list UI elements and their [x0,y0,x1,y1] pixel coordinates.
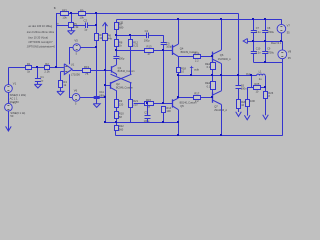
node junction 265.2,19.3 [264,18,266,20]
resistor R14 [162,106,172,113]
resistor R6 [103,33,113,40]
wire V7 bottom [281,33,283,41]
wire Q1 emitter [116,74,118,76]
wire stub x71 [71,14,73,23]
svg-text:outb: outb [194,68,200,72]
svg-text:V6: V6 [74,89,78,93]
wire V5 right [80,47,96,49]
wire C13 up [116,50,118,56]
svg-text:V8: V8 [288,49,292,53]
resistor R21 [129,99,139,107]
wire Q1 collector [116,58,118,65]
node junction 96.7,25.3 [95,24,97,26]
svg-text:0.2u: 0.2u [256,52,261,55]
svg-text:R2: R2 [45,62,49,66]
capacitor C2 [84,19,88,32]
resistor R13 [145,45,154,56]
capacitor C7 [251,19,260,41]
wire top rail H2 [117,19,281,21]
node junction 56.3,67.5 [55,66,57,68]
wire vertical x105 [105,40,107,122]
wire H4 [116,35,164,37]
svg-text:in: in [57,22,60,25]
resistor R9 [79,8,86,19]
svg-text:R10: R10 [119,112,124,116]
node junction 116.2,35.4 [115,34,117,36]
wire V6 right [80,97,105,99]
wire rail to V7 [281,19,283,24]
svg-text:R26: R26 [268,91,273,95]
node junction 178.2,19.3 [177,18,179,20]
wire x163.7 bot [163,113,165,122]
capacitor C4 [144,29,150,42]
node junction 221.4,76 [220,74,222,76]
wire stack mid [116,108,118,112]
wire x178 mid [178,76,180,99]
svg-text:.OPTIONS plotwinsize=0: .OPTIONS plotwinsize=0 [26,45,55,49]
svg-text:100p: 100p [119,56,125,60]
wire vertical x96.7 [96,14,98,97]
resistor R16 [194,51,201,62]
net flag arrow up x105 [103,23,108,34]
wire output rail H10 [178,75,251,77]
svg-text:RE1: RE1 [205,62,211,66]
transistor Q7 [213,91,228,112]
ground arrow left [243,39,247,44]
svg-text:BD140_Custom: BD140_Custom [180,101,197,104]
resistor R12 [129,35,139,47]
svg-text:4700u: 4700u [267,31,275,34]
wire C1 drop [37,68,39,79]
svg-text:.four 10 20 V(out): .four 10 20 V(out) [28,36,48,40]
wire opamp -in drop [60,72,64,81]
transistor Q4 [172,44,197,56]
node junction 178.2,135.8 [177,134,179,136]
svg-text:35: 35 [288,56,291,60]
resistor R5 [69,22,80,29]
transistor Q6 [213,50,232,64]
wire neg rail H [254,62,282,64]
svg-text:R14: R14 [166,106,171,110]
node junction 178.2,97 [177,96,179,98]
svg-text:L1: L1 [259,69,262,73]
svg-text:R4: R4 [63,80,67,84]
wire cross diag 2 [111,74,132,83]
wire C3 drop [147,103,149,115]
wire x163.7 mid [163,45,165,103]
wire x163.7 top [163,35,165,42]
net flag outb [190,66,200,76]
resistor R20 [237,88,247,108]
svg-text:Q7: Q7 [214,104,218,108]
wire feedback top H1 [56,13,239,15]
capacitor C5 [161,41,173,48]
label C9 value [267,48,275,55]
ground below R4 [57,88,64,96]
source V2 [5,101,17,111]
wire bottom rail [116,135,282,137]
wire after L1 down [265,76,267,88]
resistor R25 [254,82,261,93]
svg-text:+35: +35 [119,21,124,24]
wire Q6 collector [221,19,223,50]
label C10 value [256,48,261,55]
node junction 212.8,97 [211,96,213,98]
wire input source riser [8,68,10,85]
svg-text:2.2: 2.2 [195,59,199,63]
svg-text:100p: 100p [144,38,150,42]
svg-text:Q4: Q4 [180,46,184,50]
inductor L1 [251,69,265,81]
capacitor C10 [251,41,257,63]
node junction 212.8,76 [211,74,213,76]
label rail +35 [119,21,124,24]
resistor RE2 [205,76,215,97]
ground below C11 [93,99,100,108]
wire stack bot [116,118,118,122]
svg-text:C11: C11 [99,90,104,94]
svg-text:R1: R1 [27,62,31,66]
capacitor C8 [262,19,271,41]
svg-text:1p: 1p [84,28,87,32]
wire x130.6 bot [130,108,132,122]
wire opamp V+ to V5 [69,48,73,65]
node junction 147.5,103.3 [146,102,148,104]
svg-text:R17: R17 [194,92,199,96]
svg-text:V1: V1 [13,81,17,85]
svg-text:C10: C10 [256,48,261,51]
svg-text:35: 35 [287,30,290,34]
wire Q5 down [178,110,180,136]
label spice directives [26,24,55,48]
source V7 [277,23,290,34]
resistor R9b [115,99,124,107]
svg-text:SINE(0 1 1k): SINE(0 1 1k) [10,111,25,115]
ground below R5 [68,28,75,35]
node junction 116.2,122 [115,121,117,123]
wire x130.6 lower [130,83,132,99]
svg-text:4700u: 4700u [267,52,275,55]
node junction 163.7,50 [162,49,164,51]
node junction 105,97.4 [104,96,106,98]
resistor RF1 [83,65,91,76]
wire Q6 emitter [221,64,223,76]
svg-text:2SA1943_A: 2SA1943_A [214,109,227,112]
label fb node [54,6,57,10]
svg-text:R6: R6 [108,33,112,37]
svg-text:SINE(0 1 20k): SINE(0 1 20k) [10,93,26,97]
svg-text:Rser=0.1: Rser=0.1 [271,42,282,45]
svg-text:C7: C7 [256,27,260,30]
svg-text:R18: R18 [181,66,186,70]
ground below C1 [34,81,41,88]
label Out [246,72,251,76]
svg-text:R13: R13 [147,45,152,49]
source V6 [72,89,80,106]
svg-text:V2: V2 [13,101,17,105]
svg-text:R22: R22 [119,124,124,128]
wire C3 bot [147,118,149,122]
svg-text:10R: 10R [250,99,255,103]
label node in [57,22,60,25]
source V1 [4,81,16,92]
resistor R10 [115,112,125,119]
wire Q4 emitter chain [178,56,180,67]
svg-text:R12: R12 [133,40,138,44]
wire Q7 collector [221,76,223,91]
wire opamp V- down [69,74,72,97]
svg-text:R8: R8 [119,40,123,44]
svg-text:Q5: Q5 [180,104,184,108]
svg-text:5: 5 [75,102,77,105]
wire lower base line [134,103,172,105]
node junction 71,13.5 [70,12,72,14]
svg-text:Q6: Q6 [220,53,224,57]
resistor R2 [44,62,50,73]
wire H7 upper out base [178,56,213,58]
svg-text:fb: fb [54,6,57,10]
source V8 [278,41,292,60]
resistor R26 load [264,88,274,99]
wire lower out base [178,97,213,99]
resistor RF2 [61,8,69,19]
ground below R20 [236,109,242,117]
ground below R24b [244,106,250,119]
svg-text:75: 75 [85,72,89,76]
svg-text:Out: Out [246,72,251,76]
svg-text:RE2: RE2 [205,81,211,85]
wire cross diag 1 [111,74,132,83]
svg-text:R21: R21 [133,99,138,103]
svg-text:5: 5 [76,53,78,56]
wire Q7 emitter [221,105,223,136]
svg-text:V5: V5 [74,39,78,43]
svg-text:C5: C5 [166,41,170,45]
wire Q2 down [115,90,116,99]
node junction 191.6,76 [190,74,192,76]
capacitor C6 [236,76,248,91]
ground net wire y41 [247,41,282,43]
label V1 sine [10,93,26,104]
svg-text:.tran 0 20ms 20ms 10ns: .tran 0 20ms 20ms 10ns [26,30,55,34]
capacitor C9 [262,41,268,63]
wire neg rail drop x282.3 [282,59,284,136]
resistor R8 [115,35,123,50]
resistor R4 [59,80,68,88]
svg-text:C9: C9 [267,48,271,51]
wire R18 to rail [178,73,180,76]
wire Q2 base [105,85,110,87]
resistor R15 [145,98,154,109]
node junction 265.2,63.3 [264,61,266,63]
svg-text:LT1056: LT1056 [71,72,80,76]
wire input H8 [8,67,64,69]
wire x130.6 upper [130,47,132,75]
svg-text:C8: C8 [267,27,271,30]
resistor R17 [194,92,201,103]
node junction 265.5,87.5 [264,86,266,88]
svg-text:Q2: Q2 [116,82,120,86]
svg-text:.OPTIONS numdgt=7: .OPTIONS numdgt=7 [28,40,53,44]
node junction 253.8,19.3 [252,18,254,20]
resistor R22 [115,122,125,131]
wire damp net y87.5 [247,76,265,88]
label Elect [271,42,282,45]
ground below load [263,98,269,119]
node junction 222,19.3 [220,18,222,20]
node junction 253.8,41 [252,40,254,42]
resistor R24b [246,88,255,107]
wire R22 to rail [115,130,117,136]
svg-text:2SC5200_A: 2SC5200_A [218,58,231,61]
node junction 116.4,50 [115,49,117,51]
svg-text:R15: R15 [146,98,151,102]
node junction 130.6,35.4 [129,34,131,36]
ground below V2 [6,111,12,131]
capacitor C1 [35,75,44,82]
source V5 [73,39,80,56]
resistor R18 [177,66,187,73]
node junction 178.2,122 [177,121,179,123]
node junction 105,69.8 [104,69,106,71]
svg-text:R25: R25 [255,82,260,86]
transistor Q1 [111,65,134,74]
svg-text:RF1: RF1 [84,65,90,69]
wire H6 [116,50,172,52]
node junction 163.7,103.3 [162,102,164,104]
resistor R3 [95,33,105,41]
svg-text:RF2: RF2 [62,8,68,12]
node junction 105,85.4 [104,84,106,86]
node junction 281.4,41 [280,40,282,42]
label C7 value [256,31,261,34]
svg-text:V7: V7 [287,23,291,27]
node junction 221.4,135.8 [220,134,222,136]
label V2 sine [10,111,25,118]
node junction 37.9,67.5 [36,66,38,68]
node junction 238.5,76 [237,74,239,76]
node junction 178.2,76 [177,74,179,76]
capacitor C11 [94,90,106,98]
resistor R1 [26,62,32,73]
node junction 251.3,76 [250,74,252,76]
wire fb network H3 [56,25,96,27]
svg-text:C6: C6 [241,83,245,87]
node junction 212.8,56.7 [211,55,213,57]
svg-text:2.2k: 2.2k [44,69,50,73]
resistor RE1 [205,57,215,76]
svg-text:Q1: Q1 [118,66,122,70]
resistor R7 [115,19,124,35]
wire feedback right drop x238.5 [238,14,240,76]
svg-text:R9: R9 [119,99,123,103]
svg-text:R9: R9 [80,8,84,12]
svg-text:C1: C1 [40,75,44,79]
capacitor C3 [144,111,151,124]
node junction 163.7,122 [162,121,164,123]
wire V1-V2 [8,92,10,103]
wire Q4 collector [178,19,180,44]
svg-text:C4: C4 [145,29,149,33]
svg-text:.ac dec 100 10 1Meg: .ac dec 100 10 1Meg [28,24,53,28]
capacitor C13 [113,56,125,60]
node junction 265.2,41 [264,40,266,42]
svg-text:U1: U1 [71,63,75,67]
svg-text:0.2u: 0.2u [256,31,261,34]
node junction 96.7,47.5 [95,46,97,48]
transistor Q5 [172,98,196,109]
wire y122 bus [105,122,178,124]
node junction 105,122 [104,121,106,123]
svg-text:2u: 2u [259,77,262,81]
wire opamp out H9 [72,70,111,72]
transistor Q2 [110,81,133,90]
label C8 value [267,31,275,34]
svg-text:BC546_Custom: BC546_Custom [118,70,135,73]
node junction 96.7,13.5 [95,12,97,14]
svg-text:C2: C2 [84,19,88,23]
wire left feedback vertical x56 [56,14,58,68]
op-amp U1 [64,63,80,77]
